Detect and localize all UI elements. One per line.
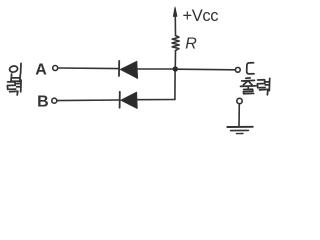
diode D2 cathode bar	[119, 92, 121, 108]
Vcc arrow head	[173, 7, 177, 17]
svg-text:B: B	[37, 94, 49, 111]
ground bar 1	[227, 126, 253, 128]
diode D2 triangle	[121, 92, 137, 108]
terminal circle C	[235, 67, 240, 72]
hangul 출 rieul bottom	[243, 89, 253, 94]
hangul 력2 giyeok final	[260, 89, 268, 94]
wire D2 to corner	[137, 99, 175, 101]
hangul 출 u vowel	[241, 86, 257, 89]
hangul 력 rieul part	[7, 82, 15, 90]
wire B input to diode D2	[57, 99, 119, 102]
ground bar 2	[231, 129, 249, 131]
ground terminal circle	[237, 98, 242, 103]
hangul 출 chieut top	[242, 78, 255, 85]
hangul 입 vertical stroke	[20, 63, 22, 73]
wire corner up to junction	[174, 71, 176, 100]
wire D1 to junction	[138, 68, 174, 70]
diode D1 triangle	[120, 61, 137, 78]
svg-text:A: A	[35, 61, 47, 78]
wire A input to diode D1	[58, 67, 118, 70]
wire junction to output C	[178, 68, 235, 71]
hangul 력 yeo vowel	[17, 80, 22, 92]
resistor R zigzag	[172, 36, 179, 51]
diode D1 cathode bar	[118, 61, 120, 76]
wire resistor to junction	[174, 51, 176, 67]
hangul 입 bieup bottom	[11, 74, 20, 81]
hangul 입 (input) char: circle part	[9, 65, 18, 73]
hangul 력 giyeok final	[10, 91, 18, 95]
label C	[247, 63, 254, 74]
wire ground stem	[238, 104, 240, 127]
ground bar 3	[236, 133, 243, 135]
hangul 력2 rieul part	[257, 80, 265, 88]
hangul 력2 yeo vowel	[265, 78, 269, 90]
svg-text:+Vcc: +Vcc	[183, 7, 219, 25]
terminal circle A	[53, 66, 58, 71]
wire Vcc arrow stem down to resistor	[174, 9, 176, 36]
terminal circle B	[52, 98, 57, 103]
junction node dot	[173, 66, 178, 71]
svg-text:R: R	[185, 35, 197, 52]
